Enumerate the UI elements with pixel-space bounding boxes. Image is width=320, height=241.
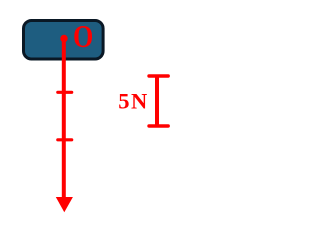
svg-text:5N: 5N — [118, 89, 149, 114]
svg-text:O: O — [73, 20, 93, 55]
